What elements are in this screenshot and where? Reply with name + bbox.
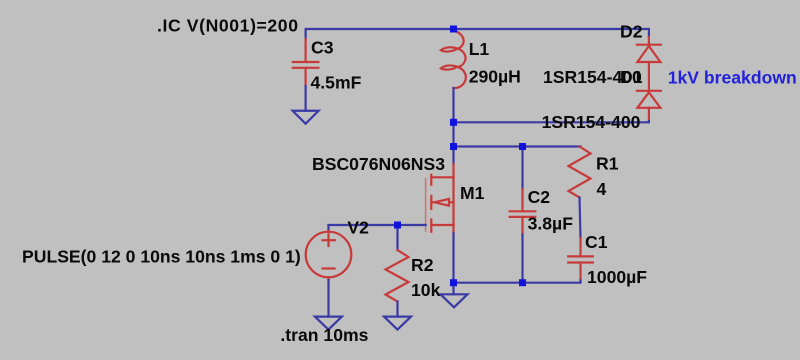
wire diode branch top lead (648, 29, 650, 37)
wire M1 source ground stub (452, 283, 454, 295)
svg-text:.IC V(N001)=200: .IC V(N001)=200 (157, 16, 298, 36)
wire rail1 to diode branch (454, 121, 649, 123)
svg-text:D1: D1 (620, 67, 643, 87)
svg-text:1SR154-400: 1SR154-400 (542, 112, 641, 132)
svg-text:R1: R1 (596, 154, 619, 174)
svg-text:PULSE(0 12 0 10ns 10ns 1ms 0 1: PULSE(0 12 0 10ns 10ns 1ms 0 1) (22, 247, 301, 267)
capacitor C1 (568, 238, 593, 281)
wire V2 top lead (327, 225, 329, 229)
ground below R2 (384, 317, 411, 330)
junction node rail2 / main vertical (450, 143, 457, 150)
svg-text:BSC076N06NS3: BSC076N06NS3 (312, 154, 445, 174)
capacitor C3 (293, 39, 319, 86)
ground below V2 (315, 317, 342, 330)
junction node top rail / L1 (450, 26, 457, 33)
svg-text:C2: C2 (528, 187, 551, 207)
svg-text:1kV breakdown: 1kV breakdown (668, 68, 797, 88)
svg-text:.tran 10ms: .tran 10ms (280, 325, 368, 345)
inductor L1 (441, 31, 466, 89)
ground below rail3 (441, 294, 468, 307)
svg-text:290µH: 290µH (469, 67, 521, 87)
svg-text:M1: M1 (460, 183, 485, 203)
svg-text:C1: C1 (585, 232, 608, 252)
junction node gate / R2 (394, 222, 401, 229)
voltage source V2 (306, 229, 352, 280)
wire C2 top lead (521, 147, 523, 190)
wire rail2 to R1 (454, 145, 581, 147)
wire C3 bottom lead (305, 86, 307, 111)
junction node C2 top (519, 143, 526, 150)
junction node rail3 / C2 bottom (519, 279, 526, 286)
resistor R1 (569, 147, 591, 198)
nmos M1 (426, 164, 454, 233)
ground below C3 (293, 111, 319, 124)
junction node rail1 / L1 bottom (450, 119, 457, 126)
wire V2 bottom lead (327, 280, 329, 317)
svg-text:4.5mF: 4.5mF (311, 72, 362, 92)
wire R2 bottom lead (396, 302, 398, 317)
wire C3 top lead (305, 29, 307, 39)
wire C2 bottom lead (521, 235, 523, 283)
capacitor C2 (510, 189, 536, 235)
svg-text:1000µF: 1000µF (587, 267, 647, 287)
resistor R2 (386, 250, 409, 302)
svg-text:D2: D2 (620, 22, 643, 42)
wire gate (329, 224, 426, 226)
wire main vertical to M1 drain (452, 147, 454, 165)
wire R1 to C1 (580, 198, 581, 239)
wire L1 bottom to rail1 (452, 88, 454, 122)
diode D2 (637, 37, 661, 91)
svg-text:10k: 10k (411, 280, 441, 300)
diode D1 (637, 91, 661, 121)
wire C1 bottom to rail3 (454, 281, 581, 283)
wire main vertical rail1 to rail2 (452, 122, 454, 146)
svg-text:R2: R2 (411, 255, 434, 275)
svg-text:V2: V2 (347, 218, 369, 238)
wire top rail N001 (306, 28, 649, 30)
svg-text:C3: C3 (311, 38, 334, 58)
wire R2 top lead (396, 225, 398, 250)
junction node rail3 / M1 source (450, 279, 457, 286)
svg-text:L1: L1 (469, 39, 490, 59)
wire diode bottom lead (648, 121, 650, 122)
wire M1 source to rail3 (452, 233, 454, 282)
svg-text:3.8µF: 3.8µF (528, 214, 574, 234)
svg-text:4: 4 (597, 179, 607, 199)
